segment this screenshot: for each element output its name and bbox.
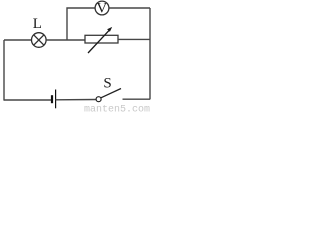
battery B1 short plate: [51, 95, 53, 103]
wire: main row, left edge to lamp: [4, 39, 32, 41]
wire: switch to bottom right corner: [123, 98, 151, 100]
rheostat R1 arrow: [88, 27, 112, 53]
lamp L: [32, 33, 47, 48]
svg-text:L: L: [33, 16, 42, 32]
wire: lamp to rheostat: [46, 39, 85, 41]
rheostat R1 box: [85, 35, 118, 43]
wire: top wire right segment (voltmeter to right rail): [109, 7, 150, 9]
wire: rheostat to right rail: [118, 38, 150, 40]
switch S lever: [101, 89, 121, 98]
svg-text:V: V: [96, 0, 107, 16]
switch S pivot: [96, 97, 101, 102]
voltmeter V1 circle: [95, 1, 109, 15]
wire: right rail: [149, 8, 151, 99]
wire: bottom left (left rail to battery): [4, 99, 51, 101]
wire: battery to switch: [56, 99, 97, 101]
wire: top wire left segment (node A to voltmeter): [67, 8, 95, 40]
svg-text:S: S: [103, 76, 111, 92]
wire: left rail: [3, 40, 5, 101]
battery B1 long plate: [55, 90, 57, 109]
svg-text:manten5.com: manten5.com: [84, 105, 150, 114]
